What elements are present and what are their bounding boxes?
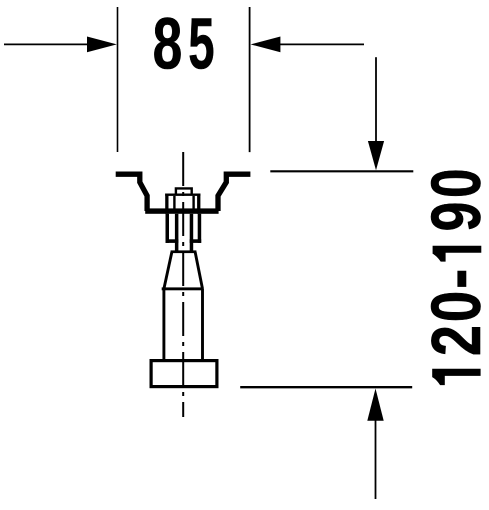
sink profile left xyxy=(116,174,147,211)
taper bottom joint line xyxy=(162,287,204,290)
neck line right xyxy=(190,214,194,251)
svg-text:5: 5 xyxy=(188,3,214,85)
arrowhead down xyxy=(368,141,384,170)
shank shoulder right xyxy=(190,239,202,243)
dimension text 85 xyxy=(153,3,215,86)
tailpiece cap xyxy=(176,188,192,195)
locknut right edge xyxy=(197,194,200,214)
digit 1 of 120 (rotated, custom) xyxy=(432,369,480,385)
svg-text:2: 2 xyxy=(418,325,489,356)
sink profile right xyxy=(218,174,250,211)
arrowhead 85 left xyxy=(87,37,117,53)
arrow stem down xyxy=(375,57,377,145)
taper top edge xyxy=(171,250,197,253)
locknut inner line left xyxy=(173,196,175,209)
reference line bottom (flange level) xyxy=(240,386,412,388)
bottom flange xyxy=(151,361,217,387)
arrow stem up xyxy=(375,418,377,499)
centerline (dash-dot) xyxy=(182,152,184,417)
digit 1 of 190 (rotated, custom) xyxy=(433,246,482,262)
threaded shank outer right xyxy=(198,214,202,243)
svg-text:9: 9 xyxy=(419,202,489,232)
sink bottom surface bar xyxy=(145,208,218,213)
arrowhead 85 right xyxy=(251,37,281,53)
reference line top (rim level) xyxy=(270,170,413,172)
extension line left xyxy=(117,7,119,152)
extension line right xyxy=(249,7,251,152)
tube wall right xyxy=(201,289,204,361)
taper left diagonal xyxy=(164,252,172,289)
taper right diagonal xyxy=(195,252,202,289)
dimension text 120-190 (rotated) xyxy=(418,168,489,356)
svg-text:-: - xyxy=(418,269,489,289)
locknut inner line right xyxy=(192,196,194,209)
svg-text:8: 8 xyxy=(153,3,183,85)
svg-text:0: 0 xyxy=(419,291,489,323)
tube wall left xyxy=(162,289,165,361)
arrowhead up xyxy=(367,389,383,421)
neck line left xyxy=(175,214,179,251)
dimension line 85 left xyxy=(4,43,88,45)
locknut top edge xyxy=(165,194,200,196)
threaded shank outer left xyxy=(166,214,170,243)
svg-text:0: 0 xyxy=(418,168,489,198)
shank shoulder left xyxy=(166,239,179,243)
dimension line 85 right xyxy=(280,43,364,45)
locknut left edge xyxy=(165,194,168,214)
